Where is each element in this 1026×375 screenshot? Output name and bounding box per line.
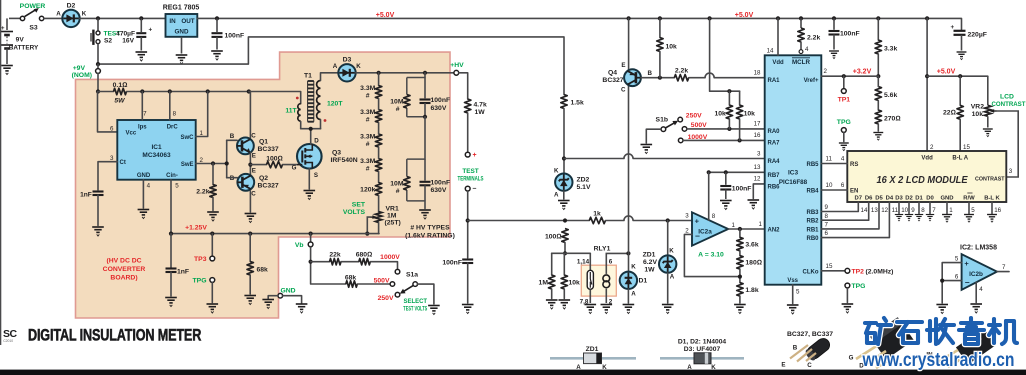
label 500V select (374, 277, 390, 284)
svg-text:IC3: IC3 (788, 170, 799, 177)
svg-text:B: B (230, 133, 235, 140)
label S1a (406, 272, 418, 279)
resistor 2.2k base (674, 75, 688, 81)
svg-text:BC327, BC337: BC327, BC337 (787, 331, 833, 338)
svg-text:10: 10 (901, 207, 908, 214)
wire VR1 bottom (378, 223, 380, 234)
wire TPG vref ground (843, 132, 845, 141)
svg-text:(25T): (25T) (385, 219, 401, 226)
svg-text:3.3M: 3.3M (360, 109, 375, 116)
resistor 3.3M HV divider (375, 159, 381, 172)
svg-text:TPG: TPG (837, 119, 851, 126)
svg-text:16: 16 (994, 207, 1001, 214)
svg-text:(HV DC DC: (HV DC DC (106, 258, 141, 265)
watermark chinese characters (865, 318, 891, 344)
svg-text:4: 4 (979, 286, 983, 293)
label 120T (327, 101, 343, 108)
label +3.2V (853, 68, 872, 75)
label SET VOLTS (343, 201, 366, 216)
battery B1 9V (1, 18, 13, 64)
label 68k board (257, 267, 269, 274)
svg-text:D2: D2 (905, 195, 913, 201)
svg-text:A: A (554, 191, 559, 198)
wire +9V into board (97, 73, 99, 91)
pin numbers IC1 (110, 111, 203, 190)
svg-text:#: # (366, 141, 370, 148)
label 68k select (345, 274, 357, 281)
label 100nF MCLR (840, 30, 860, 37)
junction +5V LCD line (925, 74, 929, 78)
label Q4 BC327 (602, 69, 623, 84)
junction +5V rail at 778 (776, 16, 780, 20)
ground RB6 (748, 200, 760, 209)
relay reed contact (587, 253, 593, 303)
svg-text:1,14: 1,14 (577, 258, 590, 265)
svg-text:+: + (472, 152, 476, 159)
svg-text:6: 6 (110, 125, 114, 132)
svg-text:11T: 11T (285, 108, 297, 115)
package drawing BC327 BC337 (781, 331, 833, 369)
pin numbers IC2b (955, 255, 1006, 293)
svg-text:Ct: Ct (120, 160, 126, 166)
svg-text:REG1 7805: REG1 7805 (163, 4, 200, 11)
svg-text:D1, D2: 1N4004: D1, D2: 1N4004 (678, 339, 727, 346)
junction base tie SwE (225, 161, 229, 165)
svg-text:MC34063: MC34063 (142, 152, 171, 159)
junction D2/S2 (96, 16, 100, 20)
svg-text:500V: 500V (374, 277, 390, 284)
wire 2.2k to hop (689, 77, 705, 79)
svg-text:3: 3 (1009, 168, 1013, 175)
switch S3 POWER (9, 8, 44, 21)
ground LCD RW (964, 215, 974, 223)
label POWER (20, 3, 46, 10)
label 100nF RB7 (732, 185, 752, 192)
pin number 18 (754, 70, 761, 77)
svg-text:C: C (251, 190, 256, 197)
transistor Q4 BC327 (621, 62, 652, 94)
junction rail TP3 (210, 232, 214, 236)
label 1nF rail (177, 269, 189, 276)
resistor 10k RA0 (726, 105, 732, 119)
wire to 22k (311, 261, 330, 263)
label 270R (884, 115, 901, 122)
svg-text:100nF: 100nF (225, 32, 245, 39)
svg-text:RLY1: RLY1 (594, 245, 611, 252)
label 100nF rail (225, 32, 245, 39)
svg-text:#: # (396, 106, 400, 113)
junction ZD2 pin3 line (562, 156, 566, 160)
svg-text:500V: 500V (691, 122, 707, 129)
svg-text:120k: 120k (360, 187, 375, 194)
wire LCD Vdd drop (926, 18, 928, 151)
svg-text:K: K (82, 11, 87, 18)
wire rail to 68k (249, 234, 251, 262)
bottom black bar (0, 370, 1026, 375)
capacitor 1nF Ct (93, 192, 104, 196)
capacitor 220uF (951, 24, 966, 51)
wire +9V nom rail (98, 37, 564, 95)
junction 22R (958, 74, 962, 78)
svg-text:5: 5 (175, 183, 179, 190)
svg-text:#: # (366, 165, 370, 172)
junction TP1 (842, 74, 846, 78)
svg-text:E: E (621, 62, 625, 69)
label Q3 IRF540N (331, 149, 358, 164)
svg-text:S2: S2 (104, 37, 112, 44)
label 10M 1 (390, 99, 404, 114)
ground GND left (262, 300, 274, 309)
label 120k (360, 187, 375, 194)
svg-text:C2010: C2010 (3, 339, 13, 343)
label 22R (943, 110, 956, 117)
svg-text:D2: D2 (67, 3, 76, 10)
label 100R gate (266, 156, 283, 163)
svg-text:3.3M: 3.3M (360, 85, 375, 92)
svg-text:9: 9 (911, 207, 915, 214)
svg-text:120T: 120T (327, 101, 343, 108)
switch S1b (661, 117, 687, 142)
svg-text:SELECT: SELECT (404, 298, 428, 305)
svg-text:S3: S3 (29, 25, 38, 32)
wire Vref+ line (821, 75, 878, 77)
wire TP3 (211, 234, 213, 257)
resistor 1k sense (589, 217, 605, 223)
label 9V BATTERY (9, 36, 39, 51)
transistor Q2 BC327 (230, 168, 257, 198)
svg-text:7: 7 (932, 207, 936, 214)
diode D3 UF4007 (333, 57, 362, 82)
svg-text:E: E (781, 362, 785, 369)
svg-text:10M: 10M (390, 99, 404, 106)
svg-text:E: E (252, 153, 256, 160)
wire TPG to ground (211, 282, 213, 302)
svg-text:Q3: Q3 (332, 149, 341, 156)
svg-text:SwE: SwE (181, 162, 194, 168)
testpoint TP3 (210, 256, 215, 261)
wire sense line left (468, 220, 590, 222)
svg-text:BC327: BC327 (258, 182, 279, 189)
svg-text:D7: D7 (855, 195, 863, 201)
svg-text:ZD2: ZD2 (577, 176, 590, 183)
transformer T1 secondary 120T (317, 81, 321, 120)
svg-text:RB0: RB0 (806, 236, 819, 242)
svg-text:Q2: Q2 (259, 175, 268, 182)
svg-text:SwC: SwC (180, 135, 194, 141)
wire rail to 1nF2 (170, 234, 172, 268)
svg-text:GND: GND (175, 29, 189, 36)
svg-text:7: 7 (143, 111, 147, 118)
svg-text:–: – (473, 186, 477, 193)
label 1k (593, 210, 601, 217)
svg-text:IC2a: IC2a (698, 228, 712, 235)
wire Q1 base (227, 139, 237, 141)
wire Vdd pin14 (777, 18, 779, 55)
wire 22R top (959, 76, 961, 105)
svg-text:D3: D3 (343, 57, 352, 64)
resistor 3.3M HV divider (375, 110, 381, 123)
junction 3.3M chain (377, 71, 381, 75)
wire 22R to BLA (959, 119, 961, 151)
label +5.0V LCD (937, 69, 956, 76)
svg-text:100nF: 100nF (840, 30, 860, 37)
svg-text:RA1: RA1 (768, 78, 781, 84)
ground Vss (787, 305, 799, 314)
polarity dot secondary (324, 119, 327, 122)
svg-text:TERMINALS: TERMINALS (458, 175, 485, 182)
wire ZD1 to ground (667, 273, 669, 303)
capacitor 100nF rail (212, 18, 223, 49)
svg-text:OUT: OUT (181, 18, 194, 25)
svg-text:D: D (314, 137, 319, 144)
pin number 1 AN2 (759, 221, 763, 228)
junction VR1 wiper rail (365, 232, 369, 236)
svg-text:AN2: AN2 (768, 228, 781, 234)
resistor 10M group1 (407, 78, 425, 117)
svg-text:C: C (621, 87, 626, 94)
wire hop RA1 over +5V drop (705, 73, 714, 78)
svg-text:6: 6 (825, 230, 829, 237)
svg-text:G: G (292, 165, 297, 172)
label 100nF 630V 1 (431, 97, 451, 112)
ground 100nF sense (462, 305, 474, 314)
wire T1 to Q3 drain (310, 129, 312, 144)
label 180R (745, 260, 762, 267)
wire 22k to 680R (341, 261, 359, 263)
resistor 100R sense (562, 229, 568, 243)
node GND terminal (278, 293, 283, 298)
pin numbers PIC top (767, 46, 809, 55)
wire IC2b pin5 (942, 263, 961, 303)
wire 5.6k to 270R (877, 101, 879, 111)
svg-text:+3.2V: +3.2V (853, 68, 872, 75)
junction group1 bottom (423, 115, 427, 119)
svg-text:D4: D4 (886, 195, 894, 201)
label 3.6k (745, 241, 758, 248)
wire 3.6k to 180R (739, 251, 741, 256)
svg-text:5.1V: 5.1V (577, 184, 591, 191)
resistor 10M 2 body (404, 177, 410, 191)
label 4.7k 1W (474, 101, 487, 116)
label S3 (29, 25, 38, 32)
ground coil (601, 305, 613, 314)
junction pin8 RB7 (707, 170, 711, 174)
svg-text:BC337: BC337 (258, 146, 279, 153)
wire chain 3-4 (378, 147, 380, 159)
junction 10k RA7 (738, 138, 742, 142)
ground IC2b pin4 (970, 304, 982, 313)
resistor 0.1R 5W (114, 88, 127, 94)
pin number 16 (754, 132, 761, 139)
wire to 0.1R (98, 91, 114, 93)
junction +9V board rail at 207.7 (206, 89, 210, 93)
svg-text:9V: 9V (16, 36, 25, 43)
svg-text:A: A (333, 63, 338, 70)
resistor 4.7k 1W (465, 99, 471, 113)
svg-text:12: 12 (881, 207, 888, 214)
pushbutton S2 TEST (91, 18, 100, 63)
svg-text:22k: 22k (329, 251, 341, 258)
ground D1 (623, 305, 635, 314)
junction +5V rail at 834 (832, 16, 836, 20)
svg-text:RA0: RA0 (768, 129, 781, 135)
svg-text:5: 5 (955, 255, 959, 262)
label TP2 2.0MHz (852, 269, 894, 276)
wire IC2b pin4 (975, 282, 977, 302)
wire Q4 emitter (628, 18, 630, 69)
resistor 2.2k IC1 (210, 185, 216, 198)
wire MCLR (800, 42, 802, 50)
resistor 10M 1 body (404, 95, 410, 109)
wire IC2a pin8 (708, 172, 710, 220)
label 10M 2 (390, 181, 404, 196)
label 250V S1b (686, 112, 702, 119)
svg-text:C: C (251, 133, 256, 140)
svg-text:12: 12 (754, 176, 761, 183)
svg-text:4: 4 (841, 156, 845, 163)
svg-text:# HV TYPES: # HV TYPES (410, 225, 450, 232)
junction Vref divider (876, 74, 880, 78)
wire Q3 source (308, 169, 310, 190)
wire chain top (378, 73, 380, 86)
wire LCD ground stub 919 (918, 202, 920, 214)
svg-text:Vdd: Vdd (772, 60, 784, 66)
wire IC2b output pin7 (997, 271, 1009, 273)
LCD pin numbers (861, 207, 1002, 214)
wire 10k RA0 top (728, 91, 730, 105)
svg-text:8: 8 (921, 207, 925, 214)
resistor 120k (375, 183, 381, 196)
svg-text:EN: EN (850, 188, 858, 194)
label 470uF 16V (116, 30, 135, 44)
junction rail 68k (248, 232, 252, 236)
ground GND right (296, 304, 308, 313)
svg-text:17: 17 (754, 121, 761, 128)
wire ZD2 to ground (563, 191, 565, 199)
svg-text:3: 3 (685, 212, 689, 219)
wire to 100R (250, 164, 266, 166)
wire 10k meas to ground (563, 289, 565, 299)
svg-text:10: 10 (826, 182, 833, 189)
svg-text:13: 13 (754, 164, 761, 171)
wire 1.5k to ZD2 (563, 109, 565, 174)
svg-text:14: 14 (767, 48, 774, 55)
svg-text:Vref+: Vref+ (804, 78, 819, 84)
wire sense to ZD1 (667, 221, 669, 256)
label 1.5k (571, 99, 584, 106)
svg-text:+HV: +HV (450, 62, 464, 69)
svg-text:TEST: TEST (462, 168, 478, 175)
wire Vss (792, 285, 794, 304)
svg-text:CONVERTER: CONVERTER (103, 266, 146, 273)
transistor Q1 BC337 (230, 133, 257, 160)
pin numbers IC2a (685, 212, 735, 234)
wire LCD D5 to PIC (821, 202, 879, 229)
wire RB4 to EN (821, 189, 847, 191)
svg-text:68k: 68k (257, 267, 269, 274)
package drawing ZD1 (550, 346, 636, 371)
svg-text:10M: 10M (390, 181, 404, 188)
svg-text:ZD1: ZD1 (643, 252, 656, 259)
wire Q4 collector to D1 (628, 86, 630, 272)
svg-text:2.2k: 2.2k (807, 34, 820, 41)
svg-text:D1: D1 (639, 278, 648, 285)
ground 270R (873, 133, 883, 141)
svg-text:470µF: 470µF (116, 30, 135, 37)
wire to 10k meas (563, 253, 565, 275)
pin number 5 Vss (796, 288, 800, 295)
label SELECT TEST VOLTS (403, 298, 427, 313)
wire 10k RA7 top (739, 91, 741, 105)
wire S1a pole to ground (418, 284, 434, 304)
pin number 15 LCD (963, 144, 970, 151)
wire to 3.6k (739, 229, 741, 237)
wire rail to Vb (310, 234, 312, 242)
label VR2 10k (971, 104, 984, 119)
label 220uF (968, 31, 987, 38)
pin number 15 CLKo (826, 263, 833, 270)
label +HV (450, 62, 464, 69)
wire 10k pullup top (659, 18, 661, 37)
svg-text:220µF: 220µF (968, 31, 987, 38)
junction reed row (563, 251, 567, 255)
wire IC2a output to AN2 (728, 228, 765, 230)
svg-text:+9V: +9V (73, 65, 86, 72)
resistor 3.3M HV divider (375, 134, 381, 147)
wire IC1 GND pin4 (142, 180, 144, 208)
svg-text:3.6k: 3.6k (745, 241, 758, 248)
svg-text:13: 13 (871, 207, 878, 214)
label 3.3k (884, 45, 897, 52)
wire 100R bottom (564, 243, 566, 254)
ground 1nF rail (165, 298, 177, 307)
testpoint TPG board (210, 278, 215, 283)
junction output divider (738, 227, 742, 231)
svg-text:630V: 630V (431, 187, 447, 194)
svg-text:+: + (695, 216, 700, 225)
resistor 1.8k (737, 283, 743, 297)
svg-text:1M: 1M (539, 280, 549, 287)
junction +5V rail at 217 (215, 16, 219, 20)
wire RB5 to RS (821, 163, 847, 165)
wire GND left (268, 296, 278, 299)
svg-text:Vb: Vb (295, 242, 304, 249)
junction rail 1nF (169, 232, 173, 236)
junction feedback tap (738, 275, 742, 279)
svg-text:TP3: TP3 (194, 256, 207, 263)
wire Q1 emitter to Q2 emitter (249, 153, 251, 177)
wire 100R to Q3 gate (283, 164, 298, 166)
wire LCD BLK stub (991, 202, 993, 214)
svg-text:A: A (670, 274, 675, 281)
label 10k RA7 (744, 111, 756, 118)
svg-text:3.3M: 3.3M (360, 133, 375, 140)
svg-text:Q1: Q1 (259, 139, 268, 146)
svg-text:+: + (964, 259, 969, 268)
regulator REG1 7805 (166, 14, 198, 54)
svg-text:www.crystalradio.cn: www.crystalradio.cn (862, 349, 1015, 371)
svg-text:B-L A: B-L A (952, 156, 968, 162)
ground TPG clk (842, 304, 854, 313)
svg-text:100nF: 100nF (732, 185, 752, 192)
wire CLKo to TP2 (821, 270, 845, 272)
svg-text:RB2: RB2 (806, 219, 819, 225)
wire to +9V node (97, 64, 99, 68)
relay coil (603, 273, 610, 287)
wire 1k to hop (606, 220, 625, 222)
wire chain 2-3 (378, 123, 380, 135)
label coil pin 6 (609, 258, 613, 265)
